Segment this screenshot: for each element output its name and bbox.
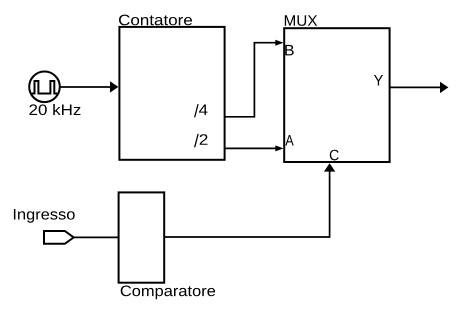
pin label B (285, 45, 293, 56)
wire Ingresso to Comparatore (74, 236, 119, 238)
pin label /2 (194, 134, 208, 147)
pin label A (285, 135, 293, 146)
block Comparatore (119, 192, 165, 282)
wire /2 to MUX A (225, 145, 284, 151)
pin label Y (374, 75, 383, 86)
pin label C (330, 150, 339, 161)
wire Comparatore to MUX C (164, 163, 335, 237)
wire MUX Y output (390, 82, 449, 93)
label MUX (285, 15, 317, 26)
label Comparatore (121, 286, 215, 300)
wire clock to Contatore (60, 81, 119, 92)
block MUX (284, 28, 389, 162)
label Ingresso (14, 209, 75, 223)
label Contatore (119, 15, 192, 26)
pin label /4 (194, 104, 208, 117)
clock source 20 kHz (29, 72, 60, 103)
label 20 kHz (29, 104, 80, 115)
wire /4 to MUX B (225, 40, 284, 117)
input port Ingresso (44, 231, 74, 244)
block Contatore (119, 27, 224, 160)
